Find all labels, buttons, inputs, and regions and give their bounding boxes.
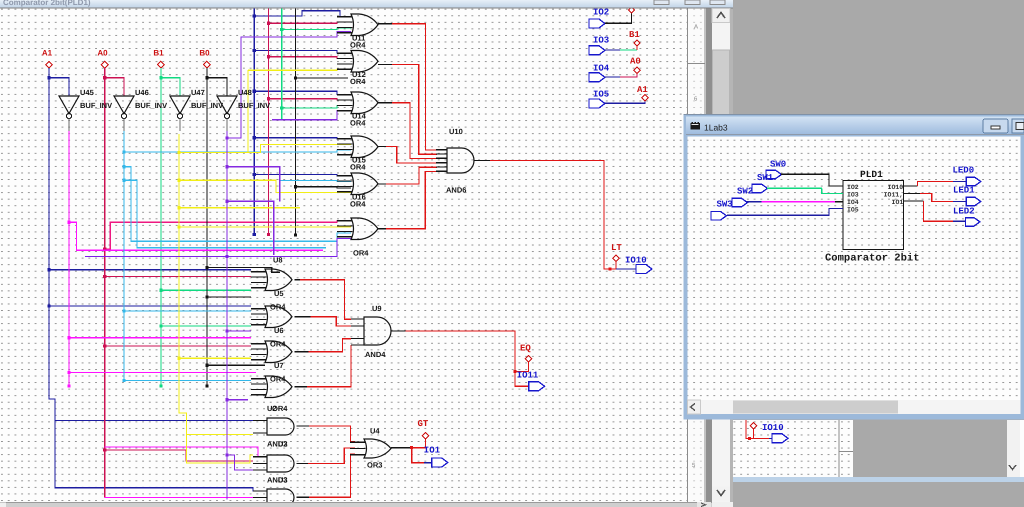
svg-text:BUF_INV: BUF_INV [135,101,167,110]
wire U7 output to U9 (red) [295,351,309,353]
svg-text:IO4: IO4 [593,64,610,74]
svg-text:U48: U48 [238,88,252,97]
connector LED1 [953,186,981,206]
client area [688,137,1021,401]
sheet margin strip with zone labels [687,9,706,503]
output pin GT [418,419,429,439]
wire SW0 to PLD1 (black) [781,174,843,186]
connector SW0 [766,160,786,179]
svg-text:Comparator 2bit: Comparator 2bit [825,253,920,265]
wire PLD1 to LED2 (red) [903,201,965,221]
wire net A1 (navy) [47,68,267,491]
wire net notB1 (yellow) [177,69,351,463]
svg-text:IO3: IO3 [593,36,609,46]
svg-text:U8: U8 [273,256,283,265]
pin diamond fragment [750,423,756,429]
svg-text:BUF_INV: BUF_INV [191,101,223,110]
svg-text:A0: A0 [97,49,108,58]
wire net A0 (crimson) [103,68,351,497]
1Lab3 window icon [691,123,701,130]
or-gate U8 OR4 [337,218,378,240]
output pin EQ [520,344,532,363]
wire U8 output to U10 (red) [378,228,386,230]
or-gate U11 OR4 [337,14,378,36]
input pin A0 [97,49,108,69]
output pin LT [611,243,622,262]
svg-text:LED0: LED0 [953,166,975,176]
svg-text:IO3: IO3 [847,191,859,198]
or-gate U6 OR4 [251,306,292,328]
wire to IO10 (red, fragment) [746,420,769,440]
wire net A1 column bus (navy) [253,9,351,237]
svg-text:SW0: SW0 [770,160,786,170]
wire U9 output to EQ/IO11 (red) [392,331,529,386]
svg-text:B1: B1 [629,30,640,40]
connector IO10 [616,256,652,274]
svg-text:Comparator 2bit(PLD1): Comparator 2bit(PLD1) [3,0,91,7]
svg-text:IO5: IO5 [593,90,609,100]
svg-text:U47: U47 [191,88,205,97]
schematic canvas [0,9,687,503]
wire net B0 column bus (black) [294,9,351,237]
1Lab3 child window [684,114,1024,420]
svg-text:AND4: AND4 [365,350,386,359]
svg-text:U3: U3 [278,476,288,485]
connector IO5 with pin A1 [589,85,648,108]
svg-text:U5: U5 [274,289,284,298]
svg-text:OR3: OR3 [367,461,382,470]
gap [706,9,712,503]
svg-text:IO5: IO5 [847,207,859,214]
wire net notA0 (cyan) [122,131,351,382]
and-gate U3 AND3 [253,455,294,472]
svg-text:U3: U3 [278,440,288,449]
svg-text:OR4: OR4 [353,249,369,258]
wire net notA1 (magenta) [67,131,323,457]
background editor window fragment (bottom right) [733,420,1024,482]
svg-text:U6: U6 [274,326,284,335]
svg-text:U9: U9 [372,304,382,313]
svg-text:SW1: SW1 [757,173,774,183]
wire PLD1 to LED1 (red) [903,193,966,201]
wire U10 output to LT/IO10 (red) [475,160,617,270]
connector SW3 [711,200,733,221]
wire U5 output to U9 (red) [295,279,301,281]
connector IO11 [517,371,545,391]
svg-text:A: A [694,24,698,31]
wire SW2 to PLD1 (magenta) [747,201,843,203]
svg-text:BUF_INV: BUF_INV [238,101,270,110]
wire U4 output to GT/IO1 (red) [391,439,426,463]
svg-text:IO2: IO2 [593,8,609,18]
svg-text:AND6: AND6 [446,186,466,195]
connector IO1 [424,446,448,468]
wire net B1 column bus (green) [280,9,351,121]
svg-text:B1: B1 [153,49,164,58]
or-gate U12 OR4 [337,51,378,73]
or-gate U14 OR4 [337,92,378,114]
or-gate U5 OR4 [251,269,292,291]
connector IO10 fragment [762,423,788,443]
svg-text:LED1: LED1 [953,186,975,196]
wire U16 output to U10 (red) [378,183,386,185]
PLD1 pin labels [847,184,903,214]
connector IO2 with pin [589,7,635,28]
svg-text:IO11,: IO11, [884,191,904,198]
wire U11 output to U10 (red) [378,23,392,25]
wire U14 output to U10 (red) [378,102,392,104]
main schematic editor window [0,0,733,507]
wire SW1 to PLD1 (green) [767,188,843,193]
wire net A0 column bus (crimson) [267,9,351,237]
svg-text:IO10: IO10 [762,423,784,433]
buffer U48 BUF_INV [217,96,237,131]
input pin A1 [42,49,53,69]
wire U15 output to U10 (red) [378,146,386,148]
svg-text:PLD1: PLD1 [860,169,883,180]
connector SW1 [752,173,774,193]
or-gate U7 OR4 [251,341,292,363]
or-gate U16 OR4 [337,173,378,195]
1Lab3 horizontal scrollbar [688,400,1021,414]
svg-text:OR4: OR4 [272,404,288,413]
wire OR4-4 output to U9 (red) [295,386,308,388]
input pin B0 [199,49,210,69]
svg-text:A1: A1 [637,85,648,95]
titlebar buttons [983,119,1008,133]
wire U12 output to U10 (red) [378,63,392,65]
wire net B1 (green) [159,68,251,388]
svg-text:OR4: OR4 [350,200,366,209]
svg-text:IO4: IO4 [847,199,859,206]
connector IO3 with pin B1 [589,30,640,55]
svg-text:SW3: SW3 [717,200,733,210]
vertical scrollbar [712,9,730,503]
or-gate U2 OR4 [251,376,292,398]
or-gate U15 OR4 [337,136,378,158]
svg-text:OR4: OR4 [350,77,366,86]
wire AND2 output to U4 (red) [297,425,310,427]
input pin B1 [153,49,164,69]
PLD chip PLD1 [843,169,903,249]
svg-text:A0: A0 [630,57,641,67]
svg-text:GT: GT [418,419,429,429]
window control buttons (cut) [654,0,669,5]
buffer U45 BUF_INV [59,96,79,131]
svg-text:IO1: IO1 [424,446,441,456]
wire PLD1 to LED0 (red) [903,182,966,186]
wire net B0 (black) [205,68,280,388]
wire net notB0 (purple) [85,32,351,500]
svg-text:U10: U10 [449,127,463,136]
connector SW2 [732,187,753,207]
title bar remnant [0,0,733,8]
buffer U47 BUF_INV [170,96,190,131]
svg-text:OR4: OR4 [350,119,366,128]
svg-text:B0: B0 [199,49,210,58]
horizontal scrollbar [0,502,712,507]
svg-text:U45: U45 [80,88,94,97]
wire SW3 to PLD1 (navy) [727,209,843,216]
svg-text:IO1: IO1 [892,199,904,206]
connector IO4 with pin A0 [589,57,641,82]
buffer U46 BUF_INV [114,96,134,131]
and-gate U9 AND4 [351,317,391,345]
and-gate AND2 [253,418,294,435]
and-gate U10 AND6 [436,148,474,173]
wire AND3-2 output to U4 (red) [297,496,310,498]
and-gate AND3 second [253,489,294,506]
svg-text:U46: U46 [135,88,149,97]
svg-text:OR4: OR4 [350,41,366,50]
svg-text:IO11: IO11 [517,371,539,381]
svg-text:U7: U7 [274,361,284,370]
wire U6 output to U9 (red) [295,316,311,318]
svg-text:EQ: EQ [520,344,531,354]
svg-text:LT: LT [611,243,622,253]
svg-text:SW2: SW2 [737,187,753,197]
wire AND3 output to U4 (red) [297,462,309,464]
svg-text:IO10: IO10 [888,184,904,191]
svg-text:BUF_INV: BUF_INV [80,101,112,110]
svg-text:IO2: IO2 [847,184,859,191]
connector LED2 [953,207,980,227]
or-gate U4 OR3 [350,439,391,458]
svg-text:1Lab3: 1Lab3 [704,123,728,133]
svg-text:OR4: OR4 [350,163,366,172]
connector LED0 [953,166,981,186]
svg-text:A1: A1 [42,49,53,58]
svg-text:U4: U4 [370,427,380,436]
svg-text:LED2: LED2 [953,207,975,217]
